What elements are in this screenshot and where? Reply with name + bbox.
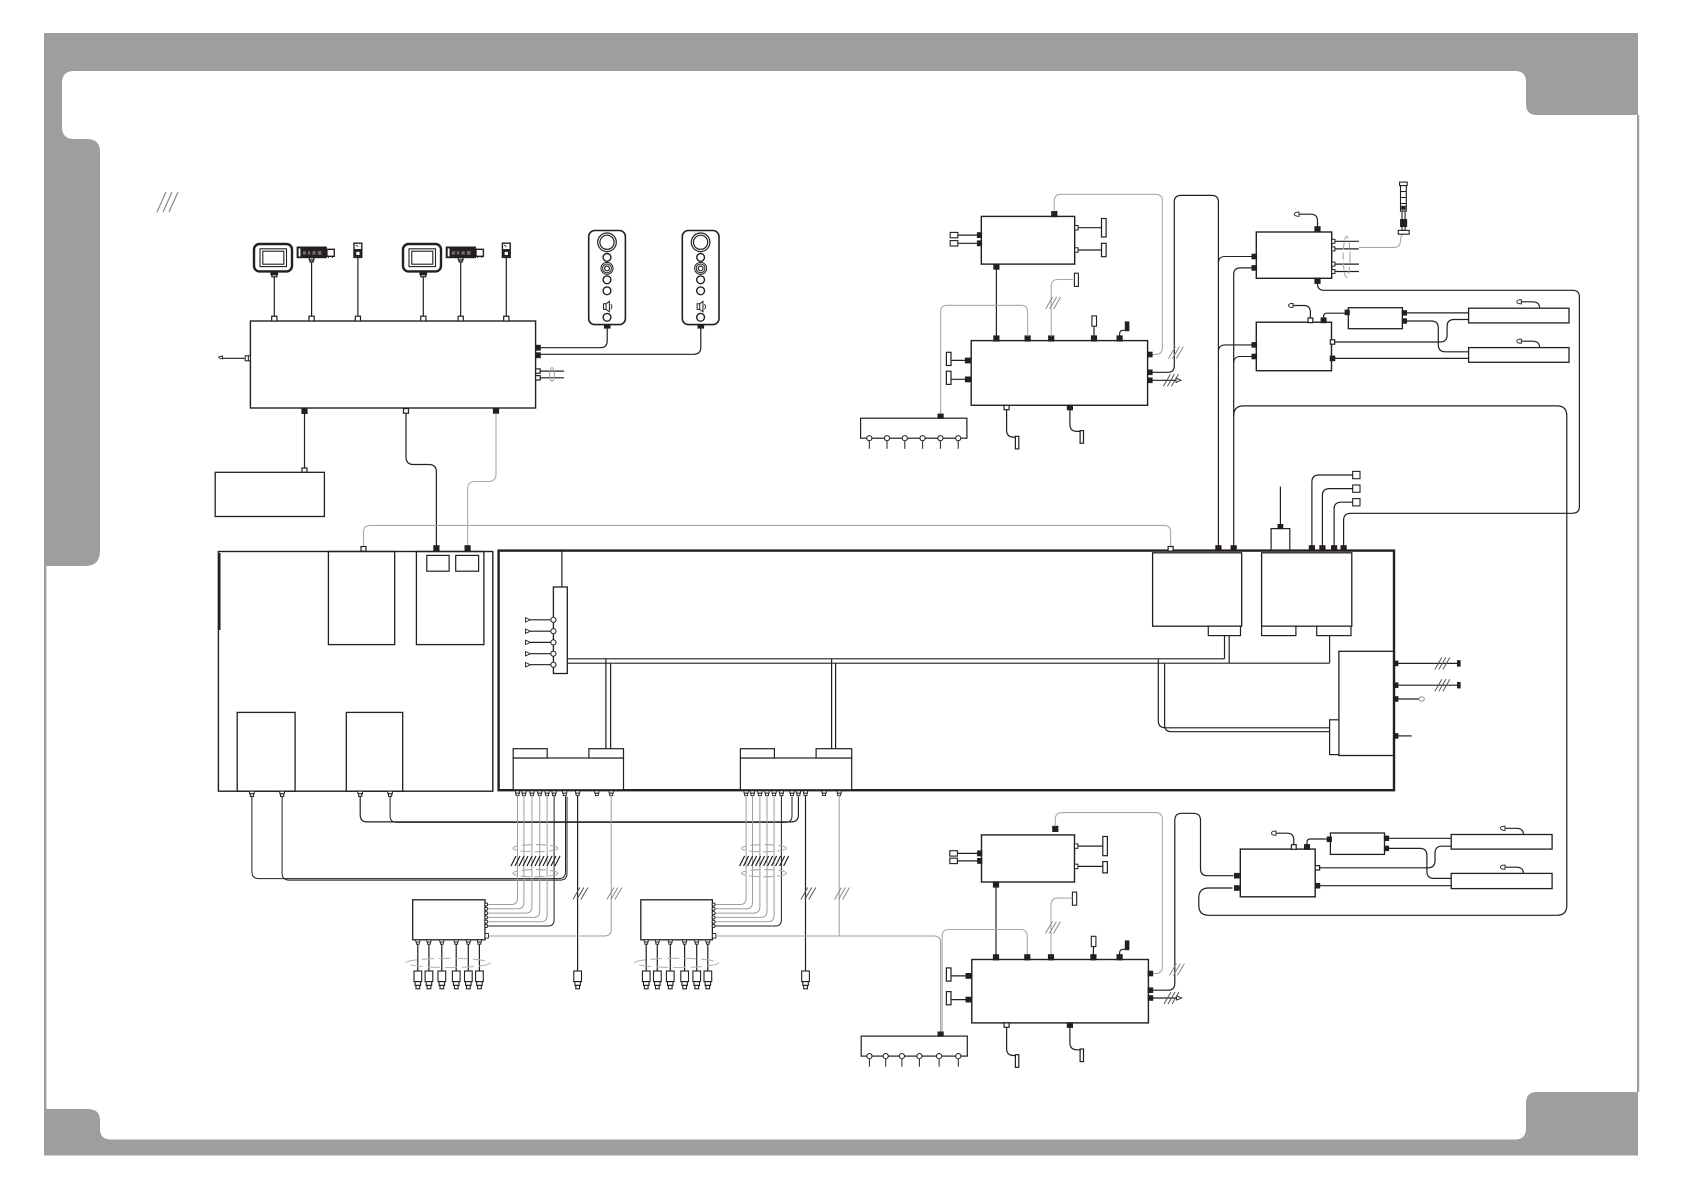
pin plug1 on main box	[355, 316, 360, 321]
B2 bottom pin 1	[1004, 405, 1019, 449]
rectifier block L2 inside power board	[416, 552, 484, 645]
D1 right edge pins	[485, 903, 489, 938]
B4b right pin2 wire to S2b	[1315, 884, 1451, 888]
main control box (top)	[250, 321, 535, 408]
cable slash on B2b pin3 wire	[1045, 922, 1060, 934]
plug connector icon 2	[502, 243, 510, 257]
pin keypad1 on main box	[309, 316, 314, 321]
B3 bottom pin loop to main board	[1315, 278, 1579, 545]
D2 speaker plugs	[642, 971, 711, 989]
tweeter plug above S2	[1517, 339, 1540, 348]
wire loop B2b pin2 over to B4b left pin1	[1153, 813, 1234, 990]
amp connector A1	[513, 749, 623, 790]
wire LCD2 to main box	[422, 277, 424, 316]
B5 right pin2 wire crossing down to speaker S2	[1402, 319, 1468, 352]
B4 top pin1 with plug wire	[1289, 303, 1313, 322]
R4 right pin3 wire with ring end	[1394, 697, 1424, 701]
pin on sub box top	[302, 468, 307, 472]
B3 left pin2 joining V4	[1234, 266, 1257, 546]
speaker terminal square 1	[1312, 471, 1360, 545]
wire loop B1b top to B2b right pin1 (gray)	[1055, 813, 1162, 974]
antenna tower icon	[1398, 182, 1409, 234]
main board top pin V4	[1231, 546, 1236, 551]
R4 right pin2 wire with slash	[1394, 679, 1460, 691]
ferrite ellipse on D2 outputs	[635, 958, 719, 967]
main board top pin V3	[1216, 546, 1221, 551]
wire out3 to power board (gray)	[468, 413, 496, 545]
ferrite ellipse 2 on A2 bundle	[742, 870, 787, 877]
cable slash on B2 pin3 stub	[1163, 374, 1178, 386]
crossover box B5	[1348, 308, 1402, 329]
wire loop B1 top to B2 right pin1 (gray)	[1054, 194, 1162, 354]
wire plug1 to main box	[357, 257, 359, 316]
gray bus D2 to service connector C1b	[716, 936, 941, 1032]
wire L3-2 to amp connector A1	[282, 796, 567, 880]
D2 output wires	[646, 944, 708, 971]
page frame left thin rule	[44, 566, 46, 1109]
A2 bundle pins	[744, 791, 841, 796]
regulator block L3 inside power board	[237, 712, 295, 791]
keypad icon 1	[297, 247, 334, 262]
front speaker S2	[1469, 348, 1569, 363]
LCD display icon 1	[254, 244, 292, 277]
D1 output pins	[416, 940, 482, 944]
cable slash on RCA2 wire	[801, 888, 816, 900]
FM antenna stub box on main board	[1271, 487, 1290, 551]
B1b top pin	[1053, 826, 1058, 831]
wire B1 bottom to B2 top pin1	[995, 269, 997, 336]
B1 top pin	[1052, 212, 1057, 217]
B1 left stub square 2	[950, 241, 981, 246]
pin L3-2 bottom	[280, 791, 285, 796]
B2b top pin 2	[1025, 955, 1030, 960]
B2b left plug bar 1	[946, 968, 970, 981]
pin L4-1 bottom	[358, 791, 363, 796]
B2 right pin2	[1148, 370, 1152, 374]
pin plug2 on main box	[504, 316, 509, 321]
surround speaker S2b	[1451, 873, 1552, 888]
ferrite ellipse 2 on A1 bundle	[513, 870, 558, 877]
B4b left pin1	[1235, 874, 1239, 878]
B1b left stub square 1	[950, 851, 982, 856]
tweeter plug above S2b	[1501, 865, 1524, 873]
wire loop B2b pin2 to service connector C1b (gray)	[942, 930, 1027, 1033]
stub connector above B2b pin5	[1120, 941, 1129, 955]
cable slash on loop riser	[1169, 964, 1184, 976]
B2b right pin1	[1148, 971, 1152, 975]
plug connector icon 1	[354, 243, 362, 257]
D1 output wires	[418, 944, 480, 971]
cable slash on D1 feed wire	[607, 888, 622, 900]
transformer block L1 inside power board	[328, 552, 394, 645]
wire L3 return up to A1 pin	[565, 795, 567, 797]
B4 left pin2 joining V4	[1234, 354, 1257, 363]
rail rise to R2 right tab	[1329, 636, 1331, 664]
service connector C1b (6 pin)	[861, 1032, 967, 1056]
RCA plug below A1	[574, 971, 582, 989]
B2 top pin 5	[1117, 336, 1122, 341]
amp connector A2	[740, 749, 851, 790]
A2 speaker wire bundle to D2	[712, 796, 774, 922]
connector strip stem	[561, 552, 563, 588]
B4b top pin1 with plug wire	[1272, 831, 1297, 849]
main board box (wide)	[499, 551, 1394, 791]
B1b left stub square 2	[950, 858, 982, 863]
B2b bottom pin 1	[1004, 1023, 1019, 1067]
wireless module B1	[981, 216, 1074, 264]
service connector C1 (6 pin)	[861, 414, 967, 438]
big loop from V4 to bottom speaker box B4'	[1199, 406, 1567, 915]
strip input row 3	[526, 640, 557, 645]
wire aux2 stub	[540, 377, 564, 379]
wire aux1 stub	[540, 370, 564, 372]
tuner block R4 inside main board	[1339, 651, 1394, 755]
B2 left plug bar 1	[946, 352, 970, 365]
B4 right pin1 wire crossing up to speaker S1	[1330, 320, 1468, 345]
R3 side tab of R4	[1330, 720, 1339, 755]
main board pin sq1	[1309, 546, 1314, 551]
B2b left plug bar 2	[946, 992, 970, 1005]
B1 right wire 2 to bar plug	[1075, 243, 1106, 256]
main board pin sq2	[1320, 546, 1325, 551]
distribution box D1	[413, 900, 485, 940]
long gray bus wire from power board to main board right	[364, 525, 1171, 545]
cable slash on B2b pin3 stub	[1164, 992, 1179, 1004]
pin power on main box bottom	[302, 409, 307, 414]
B2b bottom pin 2	[1067, 1023, 1083, 1062]
stub connector above B2 pin5	[1120, 322, 1129, 337]
cable slash on RCA wire	[573, 888, 588, 900]
pin from main out2 on power board top	[434, 546, 439, 551]
front speaker amp box B4	[1256, 322, 1331, 371]
stub connector above B2 pin4	[1092, 316, 1097, 337]
B3 top pin with plug wire	[1295, 212, 1321, 232]
rail rise pair to R1 tab	[1225, 636, 1230, 664]
wire plug2 to main box	[505, 257, 507, 316]
B2b top pin 4	[1091, 955, 1096, 960]
pin LCD1 on main box	[272, 316, 277, 321]
ferrite ellipse 1 on A1 bundle	[513, 845, 558, 852]
ferrite ellipse on D1 outputs	[406, 958, 490, 967]
pin keypad2 on main box	[458, 316, 463, 321]
B5 right pin1 wire to speaker S1	[1402, 311, 1468, 315]
pin aux1 on main box right	[536, 369, 541, 373]
av receiver box B2b	[972, 960, 1149, 1023]
wire L4-1 to amp connector A2	[360, 796, 798, 822]
B2b top pin 3	[1049, 955, 1054, 960]
DSP block R1 inside main board	[1153, 553, 1242, 626]
B3 left pin1 joining V3	[1218, 254, 1256, 263]
wire LCD1 to main box	[273, 277, 275, 316]
D1 speaker plugs	[414, 971, 483, 989]
cable slash on B2 pin3 wire	[1046, 297, 1061, 309]
pin LCD2 on main box	[421, 316, 426, 321]
wire out2 to power board	[406, 413, 436, 545]
regulator block L4 inside power board	[346, 712, 402, 791]
B1 left stub square 1	[950, 232, 981, 237]
B5b right pin2 wire crossing down to S2b	[1385, 846, 1452, 878]
wire keypad2 to main box	[460, 262, 462, 316]
tweeter plug above S1	[1517, 300, 1540, 309]
B2 right pin3 with arrow stub	[1148, 378, 1181, 382]
pin from main out3 on power board top	[465, 546, 470, 551]
ferrite ellipse on aux stubs	[550, 368, 555, 382]
page frame bottom band and tabs	[44, 1092, 1638, 1156]
pin out2 on main box bottom	[404, 409, 409, 414]
B2 bottom pin 2	[1067, 405, 1083, 443]
B4b right pin1 wire crossing up to S1b	[1315, 846, 1451, 870]
page frame top band and tabs	[44, 33, 1638, 566]
distribution box D2	[641, 900, 713, 940]
wire A2 pin down joining D2 bus (gray)	[838, 796, 840, 936]
pin remote1 on main box right	[536, 345, 541, 350]
wire 6pin connector to B2 pin2 (gray)	[941, 305, 1028, 414]
bus rail lower	[567, 662, 1329, 664]
A1 bundle pins	[515, 791, 613, 796]
power supply board box	[218, 552, 492, 792]
pin L4-2 bottom	[388, 791, 393, 796]
cable slash on A2 gray drop	[835, 888, 850, 900]
B4 left pin1 joining V3	[1218, 343, 1256, 352]
B2b right pin2	[1148, 988, 1152, 992]
B5b left pin	[1327, 837, 1331, 841]
R4 right pin1 wire with slash	[1394, 657, 1460, 669]
remote control unit 2	[682, 231, 719, 325]
B4 top pin2 wire to B5	[1321, 312, 1347, 322]
R2 bottom tab right	[1317, 626, 1351, 635]
shield hatch on A2 bundle	[740, 856, 789, 866]
B2 top pin 4	[1092, 336, 1097, 341]
video block R2 inside main board	[1262, 553, 1352, 626]
D2 output pins	[644, 940, 710, 944]
C1b pin circles and stems	[867, 1054, 961, 1067]
R1 bottom tab	[1208, 626, 1240, 635]
R4 right pin4 wire stub	[1394, 734, 1412, 738]
rail drop pair to A1 tab	[606, 659, 611, 749]
keypad icon 2	[446, 247, 483, 262]
A1 speaker wire bundle to D1	[485, 796, 547, 922]
B1b right wire 2 to bar plug	[1075, 862, 1108, 873]
B1b right wire 1 to bar plug	[1075, 837, 1108, 856]
ferrite ellipse on B3 right wires	[1343, 236, 1350, 277]
pin gray bus on main board top	[1168, 547, 1173, 552]
strip input row 5	[526, 662, 557, 667]
small relay box b inside L2	[456, 555, 479, 571]
B2 top pin 1	[994, 336, 999, 341]
RCA plug below A2	[802, 971, 810, 989]
LCD display icon 2	[403, 244, 441, 277]
wire A1 pin down to D1 input (gray)	[488, 796, 612, 936]
rail branch pair down to R3	[1158, 659, 1329, 732]
B4 right pin2 wire to speaker S2	[1330, 356, 1468, 360]
pin remote2 on main box right	[536, 353, 541, 358]
wire B3 to antenna tower (gray)	[1359, 234, 1403, 247]
main board pin sq3	[1332, 546, 1337, 551]
tweeter plug above S1b	[1501, 826, 1524, 834]
B5b right pin1 wire to speaker S1b	[1385, 836, 1452, 840]
av receiver box B2	[971, 341, 1147, 406]
strip input row 4	[526, 651, 557, 656]
crossover box B5b	[1330, 833, 1384, 854]
B2b top pin 5	[1117, 955, 1122, 960]
B2 right pin1	[1148, 352, 1152, 356]
page frame right thin rule	[1637, 115, 1639, 1092]
bus rail upper	[567, 658, 1224, 660]
main board top pin B3 loop	[1341, 546, 1346, 551]
stub connector above B2b pin4	[1091, 936, 1096, 955]
B2b top pin 1	[994, 955, 999, 960]
wire L4-2 to amp connector A2	[390, 796, 792, 822]
speaker terminal square 3	[1334, 499, 1360, 546]
B4b top pin2 wire to B5b	[1305, 839, 1328, 849]
rail drop pair to A2 tab	[832, 659, 836, 749]
front speaker S1	[1469, 308, 1569, 323]
cable slash mark top-left	[157, 192, 178, 212]
pin out3 on main box bottom	[494, 409, 499, 414]
surround speaker amp box B4b	[1240, 849, 1315, 897]
wire B1b bottom to B2b top pin1	[995, 887, 997, 955]
C1 pin circles and stems	[867, 436, 961, 449]
wireless module B1b	[982, 835, 1075, 882]
speaker terminal square 2	[1322, 485, 1360, 546]
subwoofer amp box B3	[1256, 232, 1331, 278]
B2 top pin 3	[1049, 336, 1054, 341]
ferrite ellipse 1 on A2 bundle	[742, 845, 787, 852]
pin gray bus on power board top	[361, 547, 366, 552]
D2 right edge pins	[712, 903, 716, 938]
wire main box to sub box	[304, 413, 306, 468]
cable slash on V2 riser	[1168, 347, 1183, 359]
bar plug with wire to B2b pin3	[1051, 892, 1077, 955]
pin aux2 on main box right	[536, 376, 541, 380]
B4b left pin2	[1235, 886, 1239, 890]
strip input row 2	[526, 629, 557, 634]
B2 left plug bar 2	[946, 371, 970, 384]
connector strip inside main board	[553, 587, 567, 674]
surround speaker S1b	[1451, 835, 1552, 850]
pin L3-1 bottom	[250, 791, 255, 796]
power board thick left segment	[218, 553, 221, 630]
B1b bottom pin	[994, 882, 999, 887]
shield hatch on A1 bundle	[511, 856, 560, 866]
B1 right wire 1 to bar plug	[1075, 219, 1106, 238]
sub box (below main box)	[215, 472, 324, 516]
left input plug of main box	[219, 356, 251, 361]
B2 top pin 2	[1025, 336, 1030, 341]
center line-out wire down to RCA plug 2	[805, 796, 807, 971]
B2b right pin3 with arrow stub	[1148, 996, 1181, 1000]
B1 bottom pin	[994, 264, 999, 269]
wire B2 pin3 up to bar plug (gray)	[1051, 273, 1078, 336]
wire remote1 to main box	[540, 325, 610, 348]
wire L3-1 to amp connector A1	[252, 796, 566, 878]
subwoofer line-out wire down to RCA plug	[577, 796, 579, 971]
remote control unit 1	[589, 231, 626, 325]
R2 bottom tab left	[1262, 626, 1296, 635]
wire keypad1 to main box	[311, 262, 313, 316]
B5 left pin	[1345, 310, 1349, 314]
wire loop B2 pin2 up over to vertical V3	[1152, 195, 1218, 545]
wire remote2 to main box	[540, 325, 704, 355]
strip input row 1	[526, 617, 557, 622]
B3 right pin wires	[1332, 239, 1359, 273]
small relay box a inside L2	[427, 555, 449, 571]
